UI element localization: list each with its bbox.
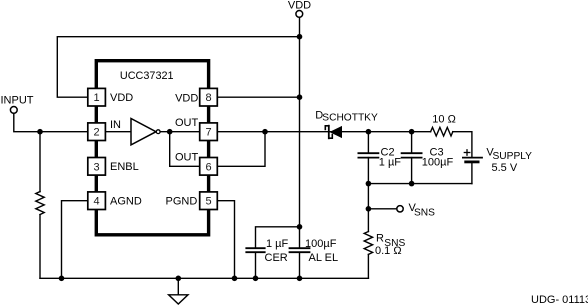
svg-text:INPUT: INPUT — [1, 95, 34, 107]
svg-text:AGND: AGND — [110, 195, 142, 207]
svg-text:8: 8 — [205, 92, 211, 104]
node: C3 bottom junction — [409, 181, 415, 187]
svg-text:UCC37321: UCC37321 — [120, 70, 174, 82]
wire: top-left loop pin1 VDD to VDD rail — [57, 37, 299, 97]
svg-text:3: 3 — [94, 161, 100, 173]
svg-text:1 µF: 1 µF — [266, 238, 289, 250]
svg-text:2: 2 — [94, 127, 100, 139]
battery V_SUPPLY 5.5V — [453, 132, 532, 184]
svg-text:UDG- 01113: UDG- 01113 — [531, 294, 588, 305]
wire: C2 bottom / sense line — [367, 158, 369, 232]
pin 1 — [88, 88, 133, 106]
pin 3 — [88, 158, 139, 176]
pin 7 — [175, 117, 217, 140]
svg-text:1: 1 — [94, 92, 100, 104]
svg-text:5.5 V: 5.5 V — [492, 162, 518, 174]
capacitor C3 100uF — [402, 132, 454, 184]
node: AL EL cap / rail junction — [297, 276, 303, 282]
svg-text:IN: IN — [110, 119, 121, 131]
ground — [169, 276, 188, 305]
resistor R_SNS 0.1 ohm — [364, 232, 405, 279]
node: inverter output branch — [167, 129, 173, 135]
wire: VDD vertical rail — [299, 37, 301, 249]
svg-text:OUT: OUT — [175, 117, 199, 129]
capacitor C2 1uF — [358, 132, 401, 169]
wire: supply bottom return — [368, 183, 472, 185]
svg-text:5: 5 — [205, 196, 211, 208]
svg-text:PGND: PGND — [166, 195, 198, 207]
wire: AGND pin 4 to ground rail — [62, 201, 88, 279]
node: input branch junction — [37, 129, 43, 135]
wire: pin 7 output row — [217, 131, 430, 133]
node: V_SNS junction — [366, 206, 372, 212]
svg-text:SUPPLY: SUPPLY — [493, 151, 533, 162]
svg-text:6: 6 — [205, 161, 211, 173]
node: PGND/rail junction — [232, 276, 238, 282]
wire: pin 8 to VDD rail — [217, 96, 299, 98]
node: C3 top junction — [409, 129, 415, 135]
svg-text:1 µF: 1 µF — [379, 157, 402, 169]
inverter (internal driver) — [105, 119, 200, 145]
node: bypass caps top junction — [297, 224, 303, 230]
resistor (input pull-down, unlabeled) — [36, 132, 44, 279]
capacitor 1uF CER — [246, 227, 299, 278]
svg-text:100µF: 100µF — [422, 157, 454, 169]
node: C2 top junction — [366, 129, 372, 135]
diode D_SCHOTTKY — [315, 109, 378, 138]
node: loop/VDD junction — [297, 34, 303, 40]
wire: PGND pin 5 to ground rail — [217, 201, 234, 279]
svg-text:10 Ω: 10 Ω — [432, 114, 456, 126]
wire: branch to pin 6 — [170, 132, 200, 167]
svg-text:R: R — [376, 232, 384, 244]
wire: INPUT terminal — [1, 95, 88, 132]
svg-text:SNS: SNS — [414, 207, 435, 218]
pin 5 — [166, 192, 218, 210]
capacitor 100uF AL EL — [290, 238, 339, 278]
pin 2 — [88, 119, 121, 141]
svg-text:7: 7 — [205, 127, 211, 139]
svg-text:ENBL: ENBL — [110, 161, 139, 173]
svg-text:OUT: OUT — [175, 152, 199, 164]
node: AGND/rail junction — [59, 276, 65, 282]
svg-text:4: 4 — [94, 196, 100, 208]
wire: ground rail — [40, 277, 368, 279]
svg-text:0.1 Ω: 0.1 Ω — [375, 245, 402, 257]
node: CER cap / rail junction — [253, 276, 259, 282]
resistor 10 ohm — [431, 114, 456, 136]
svg-text:VDD: VDD — [110, 92, 133, 104]
wire: V_SNS terminal — [368, 202, 435, 218]
svg-text:100µF: 100µF — [305, 238, 337, 250]
svg-text:VDD: VDD — [175, 92, 198, 104]
pin 6 — [175, 152, 217, 176]
node: pin8/VDD junction — [297, 94, 303, 100]
op-amp U1 UCC37321 body — [96, 61, 208, 235]
pin 8 — [175, 88, 217, 106]
node: C2 bottom junction — [366, 181, 372, 187]
node: pin6/pin7 junction — [262, 129, 268, 135]
wire: pin 6 to output row — [217, 132, 265, 167]
pin 4 — [88, 192, 142, 210]
VDD terminal — [288, 0, 311, 37]
svg-text:AL EL: AL EL — [309, 252, 339, 264]
svg-text:CER: CER — [265, 252, 288, 264]
svg-text:SCHOTTKY: SCHOTTKY — [322, 113, 378, 124]
